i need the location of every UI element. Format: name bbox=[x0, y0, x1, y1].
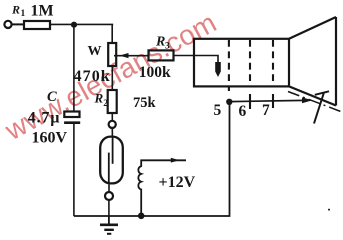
svg-text:1: 1 bbox=[21, 9, 26, 19]
resistor R1 1M bbox=[24, 21, 50, 29]
wire bottom pin to rail bbox=[108, 200, 110, 216]
pin 6 stub bbox=[249, 94, 251, 109]
svg-text:5: 5 bbox=[214, 102, 222, 119]
+12V arrow bbox=[171, 158, 180, 163]
EHT contact stem bbox=[314, 93, 324, 124]
pin 7 stub bbox=[272, 94, 274, 108]
CRT neck bbox=[194, 39, 289, 87]
svg-text:C: C bbox=[47, 89, 57, 105]
pin line to anode arrow bbox=[230, 100, 306, 101]
input terminal bbox=[4, 21, 11, 28]
inductor L1 bbox=[138, 160, 186, 216]
wire wiper to R3 bbox=[114, 55, 149, 57]
capacitor C minus plate bbox=[64, 121, 80, 124]
CRT grid dashed pin7 bbox=[272, 40, 274, 86]
node junction with capacitor branch bbox=[73, 25, 75, 112]
aquadag dash-dot line bbox=[288, 92, 342, 112]
EHT contact bar bbox=[315, 91, 329, 95]
capacitor C plus plate bbox=[64, 112, 79, 118]
CRT grid dashed pin5 bbox=[228, 40, 230, 91]
wire capacitor to rail bbox=[73, 123, 75, 216]
CRT screen bbox=[335, 17, 337, 106]
resistor R2 75k bbox=[108, 90, 117, 113]
resistor R3 100k bbox=[149, 50, 174, 60]
lamp bottom pin circle bbox=[105, 192, 113, 200]
wiper arrow of W bbox=[119, 53, 128, 58]
CRT flare bottom bbox=[289, 86, 336, 105]
svg-text:1M: 1M bbox=[31, 2, 54, 19]
node junction top bbox=[71, 22, 77, 28]
svg-text:7: 7 bbox=[262, 102, 270, 119]
watermark www.elecfans.com bbox=[0, 7, 221, 147]
lamp top pin circle bbox=[109, 121, 116, 128]
svg-text:R: R bbox=[155, 35, 165, 50]
wire pin circle to lamp bbox=[111, 128, 113, 138]
pin5 node dot bbox=[226, 99, 232, 105]
anode arrowhead bbox=[302, 97, 313, 103]
svg-text:2: 2 bbox=[103, 99, 108, 109]
svg-text:75k: 75k bbox=[133, 95, 157, 111]
wire R2 to pin circle bbox=[111, 113, 113, 121]
svg-text:R: R bbox=[11, 3, 20, 17]
ground bbox=[108, 216, 110, 225]
lamp envelope V1 bbox=[100, 137, 123, 184]
svg-text:+12V: +12V bbox=[159, 174, 196, 191]
node coil to rail bbox=[138, 213, 145, 220]
svg-text:160V: 160V bbox=[32, 130, 68, 147]
wire lamp to bottom pin circle bbox=[108, 185, 110, 193]
svg-text:100k: 100k bbox=[139, 64, 171, 81]
wire W to R2 bbox=[111, 66, 113, 90]
CRT grid dashed pin6 bbox=[249, 40, 251, 86]
svg-text:6: 6 bbox=[239, 103, 247, 120]
lamp top electrode bbox=[112, 136, 114, 164]
CRT cathode arrow bbox=[215, 62, 221, 77]
bottom rail wire bbox=[74, 102, 230, 216]
CRT cathode wire bbox=[194, 56, 218, 64]
svg-text:470k: 470k bbox=[74, 68, 111, 85]
wire corner down to W bbox=[111, 24, 113, 43]
lamp bottom electrode bbox=[108, 153, 110, 184]
svg-text:3: 3 bbox=[165, 42, 170, 52]
wire R3 to CRT bbox=[174, 55, 195, 57]
potentiometer W 470k bbox=[108, 43, 116, 66]
speck bbox=[328, 209, 330, 211]
CRT flare top bbox=[289, 17, 336, 39]
svg-text:W: W bbox=[88, 44, 102, 59]
svg-text:4.7µ: 4.7µ bbox=[28, 109, 60, 126]
wire terminal to R1 bbox=[12, 23, 24, 25]
wire R1 to corner above W bbox=[50, 23, 113, 25]
svg-text:R: R bbox=[94, 91, 104, 106]
